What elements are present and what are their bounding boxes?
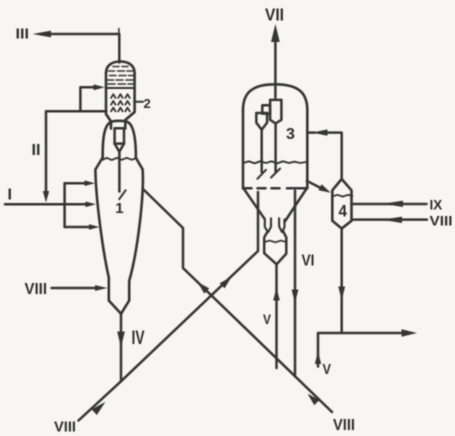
feed branch bottom: [65, 226, 89, 229]
line I feed: [5, 203, 65, 206]
svg-text:VI: VI: [302, 253, 315, 270]
vessel 3 (regenerator) outline: [243, 84, 307, 188]
line IV catalyst down: [120, 314, 123, 382]
svg-text:2: 2: [144, 96, 151, 111]
svg-text:3: 3: [286, 126, 295, 143]
line VI down from vessel 3: [294, 191, 297, 377]
line IX: [352, 203, 427, 206]
svg-text:III: III: [16, 25, 30, 42]
vessel 2 (small column) outline: [106, 62, 135, 129]
V inlet bottom right arrow: [315, 352, 321, 365]
transfer line reactor to VIII bottom-right: [144, 190, 333, 413]
standpipe right: [279, 218, 284, 232]
standpipe left: [265, 218, 271, 232]
reactor 1 internal distributor: [115, 128, 126, 199]
svg-text:VIII: VIII: [430, 212, 453, 228]
line VII overhead: [274, 42, 277, 98]
catalyst lift line to vessel 3: [121, 192, 258, 381]
svg-text:VIII: VIII: [25, 281, 48, 298]
svg-text:IV: IV: [132, 328, 145, 349]
feed branch top: [65, 182, 85, 185]
svg-text:IX: IX: [430, 198, 443, 213]
vessel 3 liquid level wavy: [243, 161, 306, 163]
svg-text:V: V: [263, 311, 272, 327]
svg-text:4: 4: [339, 203, 348, 221]
bottom right outlet line: [318, 333, 401, 367]
cyclone right in vessel 3: [262, 100, 281, 178]
svg-text:VII: VII: [265, 4, 284, 24]
vessel 4 level wavy: [333, 195, 353, 197]
arrow II down: [43, 191, 49, 203]
line III (overhead from vessel 2): [51, 34, 119, 63]
label 2 leader: [136, 101, 143, 103]
vessel 2 packing chevrons: [111, 94, 130, 112]
cyclone left in vessel 3: [256, 113, 267, 179]
line VIII right: [352, 218, 428, 221]
recycle branch back into vessel 2: [80, 87, 93, 111]
line VIII bottom-left: [79, 381, 122, 420]
vessel 4 outline: [332, 179, 351, 229]
feed distributor riser: [63, 183, 66, 227]
reactor 1 outline: [95, 121, 142, 314]
svg-text:VIII: VIII: [333, 417, 355, 434]
line V center up into pot: [275, 264, 278, 368]
arrow into vessel 2: [94, 84, 105, 90]
svg-text:V: V: [323, 361, 332, 378]
catalyst pot below vessel 3: [264, 231, 286, 264]
line vessel 3 to vessel 4: [307, 181, 320, 188]
vessel 3 bottom dashed line: [243, 187, 307, 190]
recycle loop line from vessel 2 to line I: [46, 111, 106, 191]
svg-text:1: 1: [115, 200, 123, 217]
svg-text:VIII: VIII: [54, 418, 76, 435]
svg-text:I: I: [8, 186, 12, 203]
line from vessel 4 bottom: [340, 229, 343, 334]
svg-text:II: II: [32, 142, 41, 159]
vessel 3 cone: [244, 189, 265, 219]
arrow III: [33, 31, 52, 38]
steam VIII inlet left: [52, 287, 96, 290]
reactor 1 shoulder wavy line: [103, 158, 136, 160]
line into vessel 3 right side: [328, 133, 342, 179]
vessel 2 liquid dashes: [106, 67, 134, 89]
feed branch middle: [65, 203, 86, 206]
